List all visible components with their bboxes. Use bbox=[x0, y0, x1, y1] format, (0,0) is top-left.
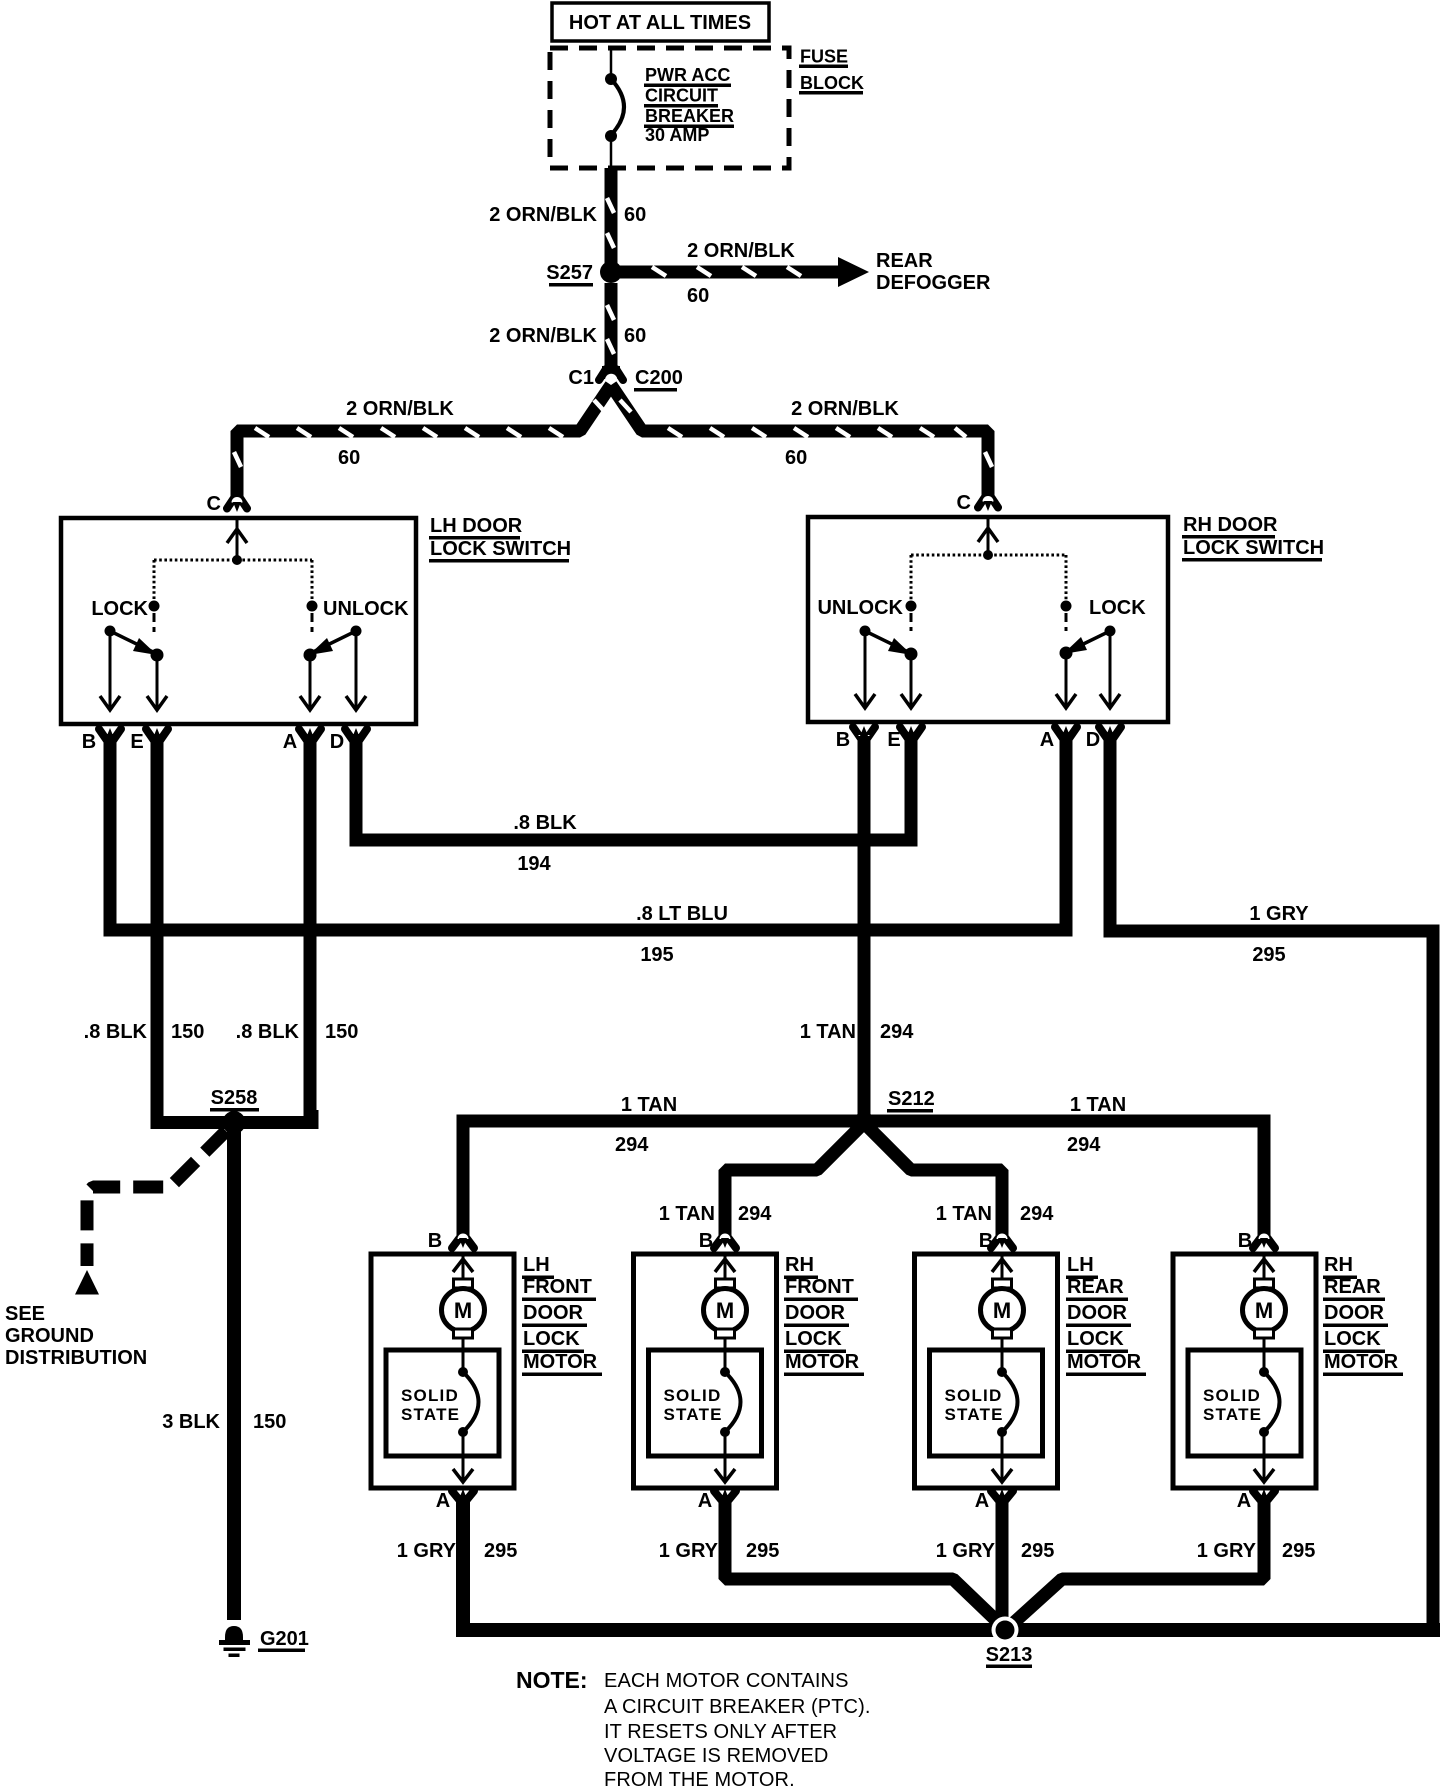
svg-text:C1: C1 bbox=[568, 367, 594, 389]
svg-text:LOCK: LOCK bbox=[785, 1328, 842, 1350]
svg-text:3 BLK: 3 BLK bbox=[162, 1411, 220, 1433]
svg-text:1 GRY: 1 GRY bbox=[1249, 903, 1309, 925]
svg-text:REAR: REAR bbox=[876, 250, 933, 272]
svg-text:MOTOR: MOTOR bbox=[785, 1351, 860, 1373]
wire .8 BLK 194 LH D to RH E bbox=[356, 734, 911, 840]
svg-text:B: B bbox=[979, 1230, 993, 1252]
svg-text:2 ORN/BLK: 2 ORN/BLK bbox=[489, 325, 597, 347]
wire 1 TAN 294 S212 to LH front motor B bbox=[463, 1121, 864, 1238]
RH switch terminals B E A D bbox=[853, 727, 862, 740]
svg-text:MOTOR: MOTOR bbox=[1067, 1351, 1142, 1373]
LH UNLOCK contact bbox=[307, 601, 318, 612]
wire 1 GRY 295 LH front motor A to S213 bbox=[463, 1496, 1440, 1630]
RH door lock switch box bbox=[808, 517, 1168, 722]
svg-text:.8 BLK: .8 BLK bbox=[513, 812, 577, 834]
svg-text:295: 295 bbox=[484, 1540, 517, 1562]
svg-text:SEE: SEE bbox=[5, 1303, 45, 1325]
svg-text:VOLTAGE IS REMOVED: VOLTAGE IS REMOVED bbox=[604, 1745, 828, 1767]
LH door lock switch box bbox=[61, 518, 416, 724]
svg-text:BLOCK: BLOCK bbox=[800, 73, 864, 93]
RH UNLOCK contact bbox=[906, 601, 917, 612]
RH front door lock motor bbox=[714, 1236, 723, 1248]
svg-text:REAR: REAR bbox=[1067, 1276, 1124, 1298]
svg-text:295: 295 bbox=[1282, 1540, 1315, 1562]
splice S213 bbox=[992, 1617, 1019, 1644]
wire 2 ORN/BLK C200 to RH switch C bbox=[611, 385, 988, 500]
svg-text:M: M bbox=[993, 1298, 1011, 1323]
svg-text:2 ORN/BLK: 2 ORN/BLK bbox=[687, 240, 795, 262]
LH switch entry arrow from C bbox=[236, 520, 239, 560]
svg-text:150: 150 bbox=[325, 1021, 358, 1043]
svg-text:.8 BLK: .8 BLK bbox=[236, 1021, 300, 1043]
RH LOCK contact bbox=[1061, 601, 1072, 612]
svg-text:B: B bbox=[82, 731, 96, 753]
svg-text:60: 60 bbox=[785, 447, 807, 469]
svg-text:LH: LH bbox=[523, 1254, 550, 1276]
svg-text:G201: G201 bbox=[260, 1628, 309, 1650]
svg-text:150: 150 bbox=[253, 1411, 286, 1433]
svg-text:E: E bbox=[887, 729, 900, 751]
svg-text:UNLOCK: UNLOCK bbox=[323, 598, 409, 620]
svg-text:C: C bbox=[207, 493, 221, 515]
wire 1 TAN 294 S212 to LH rear motor B bbox=[867, 1126, 1002, 1238]
svg-text:30 AMP: 30 AMP bbox=[645, 125, 709, 145]
connector C1 C200 bbox=[599, 369, 606, 380]
svg-text:DOOR: DOOR bbox=[523, 1302, 584, 1324]
connector C of LH switch bbox=[227, 498, 234, 509]
svg-text:1 TAN: 1 TAN bbox=[800, 1021, 856, 1043]
svg-text:C200: C200 bbox=[635, 367, 683, 389]
svg-text:MOTOR: MOTOR bbox=[1324, 1351, 1399, 1373]
svg-text:294: 294 bbox=[615, 1134, 649, 1156]
svg-text:PWR ACC: PWR ACC bbox=[645, 65, 730, 85]
LH front motor solid state breaker bbox=[386, 1350, 499, 1456]
fuse block dashed box bbox=[550, 48, 789, 168]
svg-text:E: E bbox=[130, 731, 143, 753]
LH unlock switch blade bbox=[351, 626, 362, 637]
svg-text:194: 194 bbox=[517, 853, 551, 875]
RH switch internal wires to terminals bbox=[864, 631, 867, 705]
RH front motor solid state breaker bbox=[649, 1350, 762, 1456]
svg-text:2 ORN/BLK: 2 ORN/BLK bbox=[489, 204, 597, 226]
svg-text:SOLID: SOLID bbox=[1203, 1386, 1261, 1405]
svg-text:294: 294 bbox=[1067, 1134, 1101, 1156]
svg-text:UNLOCK: UNLOCK bbox=[817, 597, 903, 619]
wire 2 ORN/BLK to rear defogger with arrow bbox=[617, 266, 843, 279]
wire 1 TAN 294 RH B to S212 bbox=[858, 736, 871, 1121]
svg-text:D: D bbox=[1086, 729, 1100, 751]
LH lock switch blade bbox=[105, 626, 116, 637]
svg-text:M: M bbox=[454, 1298, 472, 1323]
svg-text:S213: S213 bbox=[986, 1644, 1033, 1666]
svg-text:294: 294 bbox=[880, 1021, 914, 1043]
svg-text:SOLID: SOLID bbox=[401, 1386, 459, 1405]
svg-text:1 TAN: 1 TAN bbox=[1070, 1094, 1126, 1116]
svg-text:B: B bbox=[699, 1230, 713, 1252]
svg-text:FRONT: FRONT bbox=[785, 1276, 854, 1298]
svg-text:EACH MOTOR CONTAINS: EACH MOTOR CONTAINS bbox=[604, 1670, 849, 1692]
svg-text:LOCK SWITCH: LOCK SWITCH bbox=[430, 538, 571, 560]
svg-text:DOOR: DOOR bbox=[785, 1302, 846, 1324]
svg-text:B: B bbox=[428, 1230, 442, 1252]
svg-text:RH DOOR: RH DOOR bbox=[1183, 514, 1278, 536]
svg-text:295: 295 bbox=[1021, 1540, 1054, 1562]
LH switch internal wires to terminals bbox=[109, 631, 112, 707]
svg-text:1 GRY: 1 GRY bbox=[397, 1540, 457, 1562]
svg-text:195: 195 bbox=[640, 944, 673, 966]
svg-text:60: 60 bbox=[624, 204, 646, 226]
RH unlock switch blade bbox=[860, 626, 871, 637]
splice S257 bbox=[600, 261, 622, 283]
wire 1 TAN 294 S212 to RH front motor B bbox=[725, 1126, 861, 1238]
wire 3 BLK 150 S258 to G201 bbox=[227, 1129, 241, 1620]
svg-text:60: 60 bbox=[338, 447, 360, 469]
HOT AT ALL TIMES box bbox=[552, 3, 769, 41]
svg-text:STATE: STATE bbox=[1203, 1405, 1262, 1424]
svg-text:1 TAN: 1 TAN bbox=[621, 1094, 677, 1116]
svg-text:HOT AT ALL TIMES: HOT AT ALL TIMES bbox=[569, 12, 751, 34]
svg-text:C: C bbox=[957, 492, 971, 514]
splice S258 bbox=[157, 1110, 312, 1123]
svg-text:DOOR: DOOR bbox=[1324, 1302, 1385, 1324]
LH switch terminals B E A D bbox=[99, 729, 108, 742]
LH rear motor solid state breaker bbox=[930, 1350, 1043, 1456]
svg-text:A CIRCUIT BREAKER (PTC).: A CIRCUIT BREAKER (PTC). bbox=[604, 1696, 871, 1718]
svg-text:2 ORN/BLK: 2 ORN/BLK bbox=[346, 398, 454, 420]
wire 1 GRY 295 RH rear motor A to S213 bbox=[1009, 1496, 1264, 1627]
svg-text:IT RESETS ONLY AFTER: IT RESETS ONLY AFTER bbox=[604, 1721, 837, 1743]
svg-text:BREAKER: BREAKER bbox=[645, 106, 734, 126]
svg-text:SOLID: SOLID bbox=[945, 1386, 1003, 1405]
svg-text:1 GRY: 1 GRY bbox=[1197, 1540, 1257, 1562]
svg-text:2 ORN/BLK: 2 ORN/BLK bbox=[791, 398, 899, 420]
svg-text:STATE: STATE bbox=[401, 1405, 460, 1424]
wire 1 GRY 295 LH rear motor A to S213 bbox=[996, 1496, 1009, 1626]
RH switch entry arrow from C bbox=[987, 519, 990, 555]
wire 1 GRY 295 RH front motor A to S213 bbox=[725, 1496, 1003, 1627]
svg-text:1 GRY: 1 GRY bbox=[936, 1540, 996, 1562]
svg-text:150: 150 bbox=[171, 1021, 204, 1043]
svg-text:MOTOR: MOTOR bbox=[523, 1351, 598, 1373]
svg-text:A: A bbox=[698, 1490, 712, 1512]
svg-text:S258: S258 bbox=[211, 1087, 258, 1109]
svg-text:A: A bbox=[1040, 729, 1054, 751]
wire .8 BLK 150 LH A to S258 bbox=[304, 736, 317, 1117]
svg-text:LOCK: LOCK bbox=[91, 598, 148, 620]
svg-text:NOTE:: NOTE: bbox=[516, 1667, 588, 1693]
svg-text:REAR: REAR bbox=[1324, 1276, 1381, 1298]
svg-text:B: B bbox=[1238, 1230, 1252, 1252]
svg-text:M: M bbox=[716, 1298, 734, 1323]
svg-text:GROUND: GROUND bbox=[5, 1325, 94, 1347]
svg-text:M: M bbox=[1255, 1298, 1273, 1323]
wire .8 LT BLU 195 LH B to RH A bbox=[110, 734, 1066, 930]
svg-text:S212: S212 bbox=[888, 1088, 935, 1110]
wire 1 TAN 294 S212 to RH rear motor B bbox=[864, 1121, 1264, 1238]
ground G201 bbox=[225, 1626, 243, 1643]
LH LOCK contact bbox=[149, 601, 160, 612]
svg-text:FROM THE MOTOR.: FROM THE MOTOR. bbox=[604, 1769, 795, 1788]
svg-text:.8 LT BLU: .8 LT BLU bbox=[636, 903, 728, 925]
LH front door lock motor bbox=[452, 1236, 461, 1248]
LH switch common dotted bus bbox=[232, 555, 242, 565]
svg-text:FRONT: FRONT bbox=[523, 1276, 592, 1298]
connector C of RH switch bbox=[978, 497, 985, 508]
svg-text:60: 60 bbox=[687, 285, 709, 307]
RH switch common dotted bus bbox=[983, 550, 993, 560]
svg-text:295: 295 bbox=[1252, 944, 1285, 966]
svg-text:LH: LH bbox=[1067, 1254, 1094, 1276]
svg-text:1 TAN: 1 TAN bbox=[936, 1203, 992, 1225]
svg-text:A: A bbox=[975, 1490, 989, 1512]
svg-text:B: B bbox=[836, 729, 850, 751]
svg-text:60: 60 bbox=[624, 325, 646, 347]
RH lock switch blade bbox=[1105, 626, 1116, 637]
svg-text:RH: RH bbox=[785, 1254, 814, 1276]
splice S212 bbox=[855, 1112, 874, 1131]
svg-text:S257: S257 bbox=[546, 262, 593, 284]
RH rear door lock motor bbox=[1253, 1236, 1262, 1248]
svg-text:DOOR: DOOR bbox=[1067, 1302, 1128, 1324]
svg-text:294: 294 bbox=[738, 1203, 772, 1225]
wire 2 ORN/BLK C200 to LH switch C bbox=[237, 385, 611, 500]
svg-text:A: A bbox=[1237, 1490, 1251, 1512]
svg-text:LOCK: LOCK bbox=[1067, 1328, 1124, 1350]
dashed wire S258 to ground distribution bbox=[87, 1131, 226, 1266]
circuit breaker PWR ACC 30 AMP bbox=[610, 48, 613, 79]
svg-text:D: D bbox=[330, 731, 344, 753]
wire 2 ORN/BLK fuse block to S257 bbox=[605, 168, 618, 272]
svg-text:RH: RH bbox=[1324, 1254, 1353, 1276]
LH rear door lock motor bbox=[991, 1236, 1000, 1248]
svg-text:A: A bbox=[436, 1490, 450, 1512]
svg-text:.8 BLK: .8 BLK bbox=[84, 1021, 148, 1043]
wire 1 GRY 295 RH D to right edge and bottom bbox=[1110, 734, 1433, 1630]
off-page arrow to ground distribution bbox=[75, 1270, 99, 1295]
wire .8 BLK 150 LH E to S258 bbox=[151, 736, 164, 1117]
wire 2 ORN/BLK S257 to C200 bbox=[605, 283, 618, 368]
svg-text:LOCK SWITCH: LOCK SWITCH bbox=[1183, 537, 1324, 559]
svg-text:294: 294 bbox=[1020, 1203, 1054, 1225]
svg-text:CIRCUIT: CIRCUIT bbox=[645, 86, 718, 106]
svg-text:DEFOGGER: DEFOGGER bbox=[876, 272, 991, 294]
svg-text:LOCK: LOCK bbox=[523, 1328, 580, 1350]
svg-text:1 GRY: 1 GRY bbox=[659, 1540, 719, 1562]
svg-text:LH DOOR: LH DOOR bbox=[430, 515, 523, 537]
svg-text:STATE: STATE bbox=[945, 1405, 1004, 1424]
svg-text:STATE: STATE bbox=[664, 1405, 723, 1424]
svg-text:LOCK: LOCK bbox=[1324, 1328, 1381, 1350]
RH rear motor solid state breaker bbox=[1188, 1350, 1301, 1456]
svg-text:1 TAN: 1 TAN bbox=[659, 1203, 715, 1225]
svg-text:LOCK: LOCK bbox=[1089, 597, 1146, 619]
svg-text:SOLID: SOLID bbox=[664, 1386, 722, 1405]
svg-text:FUSE: FUSE bbox=[800, 47, 848, 67]
svg-text:295: 295 bbox=[746, 1540, 779, 1562]
svg-text:A: A bbox=[283, 731, 297, 753]
svg-text:DISTRIBUTION: DISTRIBUTION bbox=[5, 1347, 147, 1369]
